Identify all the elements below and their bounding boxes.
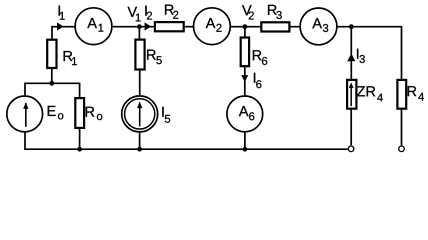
label I3 xyxy=(357,49,365,63)
wire xyxy=(79,129,81,149)
resistor R1 xyxy=(47,40,56,68)
node at A6 bottom xyxy=(243,147,248,152)
label R1 xyxy=(64,51,77,65)
ammeter A1 xyxy=(75,8,112,45)
label E0 xyxy=(48,106,64,119)
wire xyxy=(112,26,194,28)
label R6 xyxy=(253,50,267,65)
label R5 xyxy=(147,50,162,65)
node at I5 bottom xyxy=(137,147,142,152)
wire xyxy=(25,83,80,97)
label R3 xyxy=(268,5,282,19)
ammeter A2 xyxy=(194,8,231,45)
current source I5 xyxy=(122,96,158,132)
resistor R5 xyxy=(135,40,144,70)
label R2 xyxy=(165,5,178,19)
label I5 xyxy=(162,107,170,123)
wire xyxy=(337,27,402,79)
label R0 xyxy=(86,107,103,120)
wire xyxy=(350,110,352,146)
label R4 xyxy=(408,86,424,100)
wire xyxy=(139,70,141,96)
wire xyxy=(350,27,352,79)
resistor R2 xyxy=(155,22,184,31)
ammeter A3 xyxy=(300,8,337,45)
label I2 xyxy=(145,6,152,20)
terminal under R4 xyxy=(399,146,405,152)
current arrow I2 xyxy=(145,22,152,30)
wire xyxy=(138,27,140,39)
current arrow I3 xyxy=(347,54,355,62)
label ZR4 xyxy=(357,86,383,101)
resistor R3 xyxy=(261,22,289,31)
resistor R6 xyxy=(241,38,249,67)
voltage source E0 xyxy=(7,96,43,132)
current arrow I1 xyxy=(57,22,64,30)
wire xyxy=(51,69,53,83)
wire xyxy=(139,132,141,150)
terminal under ZR4 xyxy=(348,146,354,152)
wire xyxy=(401,110,403,146)
label V2 xyxy=(242,5,254,19)
node V1 xyxy=(137,24,142,29)
wire xyxy=(230,26,300,28)
wire xyxy=(244,27,246,37)
resistor R4 xyxy=(397,80,406,109)
current arrow I6 xyxy=(241,75,248,82)
label V1 xyxy=(128,7,141,22)
variable impedance ZR4 xyxy=(347,80,356,109)
node at R0 bottom xyxy=(77,147,82,152)
node at A3-ZR4 junction xyxy=(349,24,354,29)
wire xyxy=(25,131,348,149)
label I1 xyxy=(59,6,65,20)
node at R1 bottom xyxy=(49,81,54,86)
label I6 xyxy=(254,73,262,88)
wire xyxy=(52,27,75,39)
node V2 xyxy=(243,24,248,29)
resistor R0 xyxy=(75,98,84,128)
wire xyxy=(244,67,246,96)
wire xyxy=(244,132,246,150)
ammeter A6 xyxy=(227,96,263,132)
